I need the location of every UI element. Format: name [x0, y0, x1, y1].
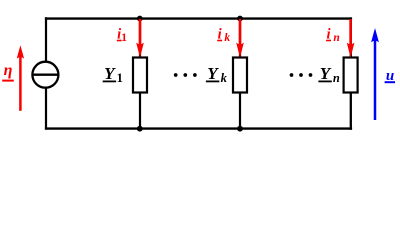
label Y_k [206, 64, 228, 85]
label i_1 [117, 26, 127, 44]
admittance Y_n box [344, 58, 358, 93]
source current arrow (red, up) [17, 45, 24, 111]
svg-text:Y: Y [104, 64, 116, 83]
admittance Y_k box [233, 58, 247, 93]
current arrow i_1 (red, down) [136, 19, 144, 58]
svg-text:k: k [221, 71, 228, 85]
svg-text:Y: Y [207, 64, 219, 83]
wire: branch k upper lead [239, 19, 241, 59]
wire: bottom bus [45, 127, 352, 129]
svg-text:k: k [224, 32, 230, 44]
label i_k [217, 26, 230, 44]
label i_n [326, 26, 340, 44]
junction dot: top node branch k [237, 16, 243, 22]
junction dot: top node branch 1 [137, 16, 143, 22]
label Y_n [318, 64, 339, 85]
wire: left vertical (source branch) [45, 17, 47, 129]
label u [385, 68, 395, 84]
wire: top bus [45, 17, 352, 19]
ellipsis dots between branch k and branch n [290, 73, 313, 77]
label Y_1 [103, 64, 123, 85]
junction dot: bottom node branch k [237, 126, 243, 132]
wire: branch n upper lead (right edge) [350, 17, 352, 58]
svg-text:Y: Y [320, 64, 332, 83]
svg-text:η: η [4, 62, 13, 79]
junction dot: bottom node branch 1 [137, 126, 143, 132]
svg-text:n: n [333, 71, 340, 85]
wire: branch 1 upper lead [139, 19, 141, 59]
svg-text:1: 1 [117, 71, 123, 85]
svg-text:1: 1 [121, 32, 127, 44]
current arrow i_k (red, down) [236, 19, 244, 58]
wire: branch k lower lead [239, 92, 241, 129]
admittance Y_1 box [133, 58, 147, 93]
wire: branch n lower lead (right edge) [350, 92, 352, 130]
ellipsis dots between branch 1 and branch k [174, 73, 197, 77]
current arrow i_n (red, down) [347, 19, 355, 58]
svg-text:n: n [333, 32, 339, 44]
current source (circle with bar) [32, 62, 58, 88]
voltage arrow u (blue, up) [371, 28, 379, 120]
wire: branch 1 lower lead [139, 92, 141, 129]
label eta (source quantity) [2, 62, 14, 81]
